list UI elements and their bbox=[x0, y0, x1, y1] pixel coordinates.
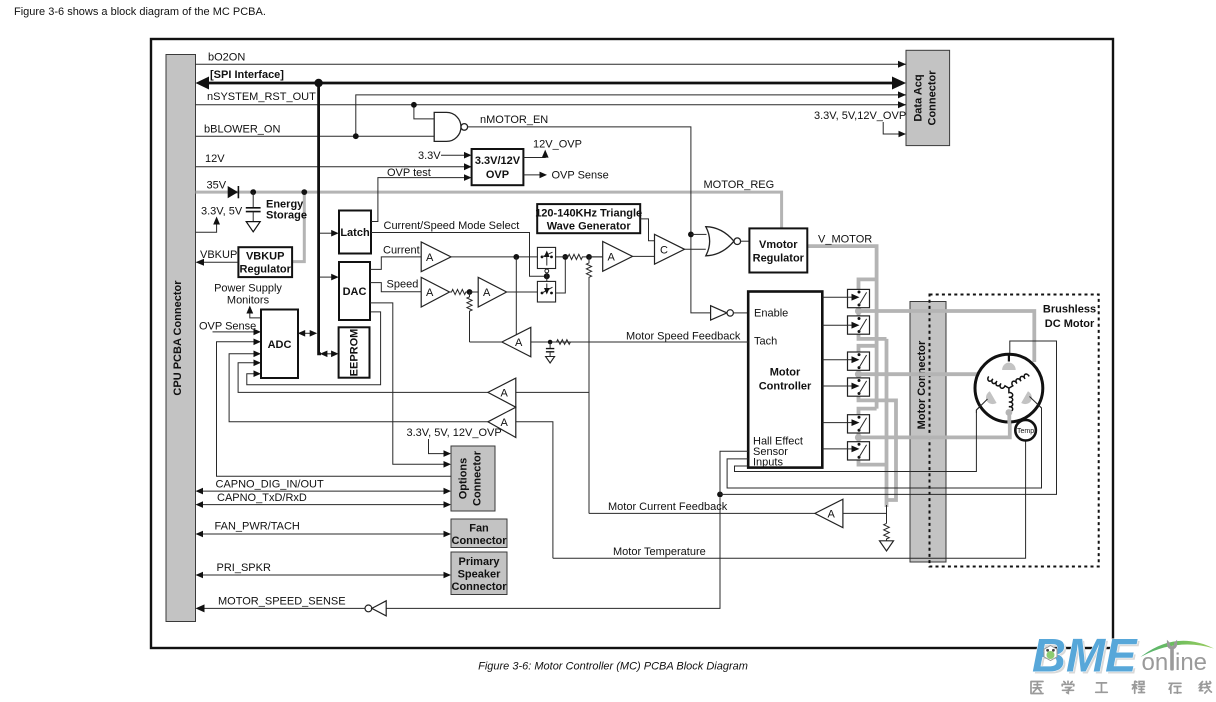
wire power supply monitors arrow bbox=[250, 309, 261, 318]
char cheng bbox=[1132, 681, 1144, 693]
svg-text:CAPNO_TxD/RxD: CAPNO_TxD/RxD bbox=[217, 492, 307, 504]
Brushless DC Motor label bbox=[1043, 304, 1096, 331]
Options Connector bbox=[451, 446, 495, 511]
wire motor phase B bbox=[859, 372, 978, 376]
svg-text:VBKUP: VBKUP bbox=[200, 249, 237, 261]
svg-text:Fan: Fan bbox=[469, 523, 489, 535]
svg-text:Current/Speed Mode Select: Current/Speed Mode Select bbox=[384, 220, 520, 232]
svg-text:nMOTOR_EN: nMOTOR_EN bbox=[480, 114, 548, 126]
wire hall 2 from MC to motor right sensor bbox=[727, 397, 1041, 489]
ground energy storage bbox=[246, 222, 260, 232]
wire A3 to switch S2 bbox=[470, 291, 538, 293]
wire motor controller drive 5 bbox=[822, 422, 855, 424]
svg-text:bBLOWER_ON: bBLOWER_ON bbox=[204, 124, 280, 136]
Vmotor Regulator U10 bbox=[749, 228, 807, 272]
wire A5 input from motor temperature bbox=[516, 422, 553, 559]
transistor switch Q4 bbox=[848, 378, 870, 396]
junction phase B tap bbox=[855, 371, 862, 378]
wire ADC input from amp A4 bbox=[229, 354, 488, 422]
wire bus to Latch bbox=[320, 232, 335, 234]
transistor switch Q6 bbox=[848, 442, 870, 460]
resistor R1 after A2 bbox=[450, 289, 470, 294]
svg-text:Speed: Speed bbox=[387, 279, 419, 291]
wire bus to DAC bbox=[320, 276, 335, 278]
temp sensor circle bbox=[1015, 420, 1036, 441]
junction 35V vbkup node bbox=[301, 189, 307, 195]
junction nMOTOR_EN to NOR bbox=[688, 232, 694, 238]
winding coil up-right bbox=[1007, 373, 1029, 388]
wire motor controller drive 2 bbox=[822, 324, 855, 326]
wire ADC input from DAC loopback bbox=[247, 312, 381, 385]
svg-text:DAC: DAC bbox=[343, 286, 367, 298]
junction grey at motor winding bottom bbox=[1005, 409, 1012, 416]
diode D1 on 35V rail bbox=[228, 186, 238, 198]
resistor R6 current sense bbox=[884, 523, 890, 540]
CPU PCBA Connector bar bbox=[166, 55, 196, 622]
wire CAPNO_TxD/RxD bbox=[199, 504, 447, 506]
winding coil up-left bbox=[987, 376, 1009, 391]
svg-text:A: A bbox=[426, 287, 434, 299]
wire OVP Sense out bbox=[523, 174, 543, 176]
node mode select control bbox=[544, 273, 550, 279]
junction phase A tap bbox=[855, 307, 862, 314]
SPI bus vertical bbox=[319, 83, 321, 354]
NAND gate U8 bbox=[434, 112, 467, 141]
winding coil down bbox=[1009, 388, 1013, 411]
wire current node down to speed feedback amp bbox=[515, 257, 517, 336]
inverter U13 speed sense (points left) bbox=[365, 601, 386, 616]
transistor switch Q2 bbox=[848, 316, 870, 334]
svg-text:Current: Current bbox=[383, 245, 420, 257]
svg-text:Connector: Connector bbox=[452, 581, 508, 593]
svg-text:Regulator: Regulator bbox=[753, 253, 805, 265]
svg-text:12V: 12V bbox=[205, 153, 225, 165]
ground at cap bbox=[546, 357, 555, 364]
wire Latch to OVP test bbox=[371, 178, 468, 222]
wire motor temperature bbox=[553, 441, 1026, 559]
ground current sense bbox=[880, 541, 894, 551]
motor M1 brushless bbox=[975, 354, 1043, 424]
wire motor phase C bbox=[859, 413, 1010, 438]
wire bO2ON bbox=[196, 63, 907, 65]
wire DAC speed output bbox=[370, 283, 421, 292]
wire grey through switch pair Q3/Q4 bbox=[859, 352, 897, 500]
svg-text:A: A bbox=[426, 252, 434, 264]
wire 12V_OVP out bbox=[523, 153, 545, 158]
wire ADC input from amp A5 (x216.5) to Options bbox=[217, 342, 452, 476]
wire NAND top input from nSYSTEM_RST_OUT bbox=[414, 105, 434, 119]
hall pad lower left bbox=[983, 391, 996, 406]
wire A8 input from sense node bbox=[843, 512, 887, 514]
wire 3.3V,5V,12V_OVP elbow into Data Acq bbox=[883, 122, 902, 134]
op-amp A5 (points left) bbox=[488, 407, 516, 437]
svg-text:Data Acq: Data Acq bbox=[913, 74, 925, 121]
svg-text:MOTOR_REG: MOTOR_REG bbox=[704, 179, 775, 191]
svg-text:Power Supply: Power Supply bbox=[214, 283, 282, 295]
EEPROM U6 bbox=[339, 327, 370, 377]
junction cap node bbox=[548, 340, 553, 345]
wire hall 3 from MC to motor left sensor bbox=[735, 399, 988, 472]
svg-text:Connector: Connector bbox=[472, 450, 484, 506]
wire A1 output to switch S1 bbox=[451, 256, 537, 258]
svg-text:3.3V, 5V, 12V_OVP: 3.3V, 5V, 12V_OVP bbox=[407, 427, 502, 439]
svg-text:Options: Options bbox=[458, 458, 470, 500]
Primary Speaker Connector bbox=[451, 552, 507, 595]
svg-text:Motor Temperature: Motor Temperature bbox=[613, 546, 706, 558]
transistor switch Q3 bbox=[848, 352, 870, 370]
wire VBKUP to connector bbox=[199, 261, 238, 263]
wire CAPNO_DIG_IN/OUT bbox=[199, 490, 447, 492]
op-amp A7 speed feedback (points left) bbox=[502, 327, 531, 357]
svg-text:A: A bbox=[483, 287, 491, 299]
capacitor C3 to ground bbox=[549, 342, 551, 348]
VBKUP Regulator U2 bbox=[238, 247, 292, 277]
Motor Controller U12 bbox=[748, 292, 822, 469]
120-140KHz Triangle Wave Generator bbox=[535, 204, 642, 233]
junction phase C at winding bbox=[1006, 409, 1013, 416]
char gong bbox=[1096, 683, 1108, 692]
svg-text:3.3V: 3.3V bbox=[418, 150, 441, 162]
logo wrench bbox=[1167, 640, 1177, 671]
junction on nSYSTEM_RST_OUT bbox=[411, 102, 417, 108]
svg-text:Brushless: Brushless bbox=[1043, 304, 1096, 316]
wire DAC out3 to Options bbox=[370, 303, 447, 464]
hall pad top bbox=[1002, 363, 1016, 370]
op-amp A8 current feedback (points left) bbox=[815, 499, 843, 527]
char xian bbox=[1200, 682, 1212, 694]
junction node after switches bbox=[562, 254, 568, 260]
svg-text:Latch: Latch bbox=[340, 227, 370, 239]
svg-text:Speaker: Speaker bbox=[458, 569, 502, 581]
wire grey through switch pair Q5/Q6 bbox=[859, 415, 887, 465]
wire 12V bbox=[196, 166, 472, 168]
wire V_MOTOR feed to switch Q5 bbox=[859, 409, 877, 415]
svg-text:CAPNO_DIG_IN/OUT: CAPNO_DIG_IN/OUT bbox=[216, 479, 324, 491]
svg-text:Motor Connector: Motor Connector bbox=[916, 340, 928, 429]
wire 3.3V into OVP bbox=[441, 154, 468, 156]
wire ADC to bus bidirectional bbox=[301, 332, 315, 334]
DAC U5 bbox=[339, 262, 370, 320]
wire Current/Speed Mode Select bbox=[371, 233, 544, 277]
svg-text:VBKUP: VBKUP bbox=[246, 251, 285, 263]
switch S2 speed mode bbox=[537, 281, 555, 302]
svg-text:OVP Sense: OVP Sense bbox=[199, 321, 256, 333]
wire A4 input from current feedback vertical bbox=[516, 391, 589, 393]
logo chinese characters bbox=[1031, 681, 1211, 693]
op-amp A4 (points left) bbox=[488, 378, 516, 407]
svg-text:Tach: Tach bbox=[754, 336, 777, 348]
op-amp A6 before comparator bbox=[603, 242, 633, 272]
svg-text:3.3V, 5V,12V_OVP: 3.3V, 5V,12V_OVP bbox=[814, 110, 906, 122]
svg-text:OVP test: OVP test bbox=[387, 167, 431, 179]
svg-text:on: on bbox=[1142, 649, 1169, 676]
wire hall slant to right pad (redraw over motor) bbox=[1030, 397, 1042, 413]
BME online logo bbox=[1031, 629, 1214, 694]
wire SPI Interface thick bus bbox=[199, 82, 903, 85]
svg-text:nSYSTEM_RST_OUT: nSYSTEM_RST_OUT bbox=[207, 91, 316, 103]
logo hexagon mascot bbox=[1044, 646, 1057, 661]
svg-text:Storage: Storage bbox=[266, 210, 307, 222]
wire PRI_SPKR bbox=[199, 574, 447, 576]
wire V_MOTOR feed to switch Q1 bbox=[859, 279, 877, 289]
svg-text:A: A bbox=[608, 252, 616, 264]
wire grey through switch pair Q1/Q2 bbox=[859, 289, 887, 339]
Latch U4 bbox=[339, 211, 371, 254]
junction speed node bbox=[467, 289, 473, 295]
svg-text:3.3V, 5V: 3.3V, 5V bbox=[201, 206, 243, 218]
wire V_MOTOR feed to switch Q3 bbox=[859, 346, 877, 352]
svg-text:EEPROM: EEPROM bbox=[349, 329, 361, 377]
wire bBLOWER_ON bbox=[196, 135, 435, 137]
svg-text:A: A bbox=[501, 388, 509, 400]
svg-text:Connector: Connector bbox=[452, 535, 508, 547]
svg-text:Wave Generator: Wave Generator bbox=[547, 221, 632, 233]
wire ADC input feedback line B bbox=[238, 363, 488, 393]
wire FAN_PWR/TACH bbox=[199, 533, 447, 535]
wire DAC current output bbox=[370, 257, 421, 270]
wire motor controller drive 6 bbox=[822, 448, 855, 450]
wire MOTOR_SPEED_SENSE bbox=[199, 498, 720, 609]
junction comparator input node bbox=[586, 254, 592, 260]
svg-text:OVP: OVP bbox=[486, 169, 509, 181]
svg-text:Figure 3-6: Motor Controller (: Figure 3-6: Motor Controller (MC) PCBA B… bbox=[478, 661, 748, 673]
junction SPI bus tap bbox=[314, 79, 322, 87]
svg-text:OVP Sense: OVP Sense bbox=[552, 170, 609, 182]
svg-text:V_MOTOR: V_MOTOR bbox=[818, 234, 872, 246]
svg-text:FAN_PWR/TACH: FAN_PWR/TACH bbox=[215, 521, 300, 533]
svg-text:Temp: Temp bbox=[1017, 428, 1034, 435]
wire motor speed feedback line bbox=[470, 341, 749, 343]
svg-text:C: C bbox=[660, 245, 668, 257]
svg-text:bO2ON: bO2ON bbox=[208, 52, 245, 64]
wire sense node to resistor bbox=[886, 505, 888, 523]
wire OVP sense into ADC bbox=[213, 331, 258, 333]
wire V_MOTOR grey bbox=[807, 246, 876, 409]
wire drive arrowheads over switches bbox=[848, 294, 860, 453]
junction bBLOWER_ON branch bbox=[353, 133, 359, 139]
wire 3.3V,5V,12V_OVP elbow into Options bbox=[429, 439, 448, 454]
resistor R4 vertical current feedback bbox=[586, 257, 591, 514]
svg-text:MOTOR_SPEED_SENSE: MOTOR_SPEED_SENSE bbox=[218, 596, 346, 608]
svg-text:A: A bbox=[828, 509, 836, 521]
comparator C1 bbox=[655, 234, 685, 264]
wire motor controller drive 1 bbox=[822, 296, 855, 298]
svg-text:12V_OVP: 12V_OVP bbox=[533, 139, 582, 151]
Data Acq Connector bbox=[906, 50, 950, 145]
junction 35V cap node bbox=[250, 189, 256, 195]
inverter U11 enable bbox=[711, 306, 734, 320]
junction phase C tap bbox=[855, 434, 862, 441]
svg-text:PRI_SPKR: PRI_SPKR bbox=[217, 562, 271, 574]
char zai bbox=[1169, 683, 1181, 693]
Brushless DC Motor dashed enclosure bbox=[930, 295, 1099, 567]
wire bBLOWER_ON branch to Data Acq bbox=[356, 95, 906, 136]
wire 3.3V,5V arrow up from connector bbox=[196, 220, 217, 232]
wire motor current feedback bbox=[589, 512, 815, 514]
svg-text:Motor: Motor bbox=[770, 367, 801, 379]
svg-text:CPU PCBA Connector: CPU PCBA Connector bbox=[172, 280, 184, 396]
outer frame bbox=[151, 39, 1113, 648]
wire motor controller drive 3 bbox=[822, 359, 855, 361]
wire 35V / MOTOR_REG grey rail bbox=[196, 192, 782, 228]
wire hall slant to left pad (redraw over motor) bbox=[976, 399, 987, 413]
wire C1 output to NOR bbox=[685, 248, 706, 250]
svg-text:ine: ine bbox=[1175, 649, 1207, 676]
OVP box U7 bbox=[472, 149, 524, 185]
svg-text:Vmotor: Vmotor bbox=[759, 239, 798, 251]
svg-text:[SPI Interface]: [SPI Interface] bbox=[210, 69, 284, 81]
op-amp A1 current bbox=[421, 242, 451, 272]
NOR gate U9 bbox=[706, 227, 741, 256]
hall pad lower right bbox=[1021, 391, 1034, 406]
wire motor controller drive 4 bbox=[822, 385, 855, 387]
wire nMOTOR_EN bbox=[468, 127, 711, 313]
svg-text:DC Motor: DC Motor bbox=[1045, 318, 1095, 330]
wire hall 1 from MC to motor top sensor bbox=[720, 341, 1057, 494]
char yi bbox=[1031, 682, 1043, 694]
svg-text:Regulator: Regulator bbox=[240, 264, 292, 276]
op-amp A2 speed bbox=[421, 277, 449, 307]
wire nSYSTEM_RST_OUT bbox=[196, 104, 907, 106]
resistor R3 after switches bbox=[556, 254, 603, 259]
Fan Connector bbox=[451, 519, 507, 548]
wire motor phase A bbox=[859, 311, 1035, 362]
ADC U3 bbox=[261, 310, 298, 379]
Motor Connector bar bbox=[910, 302, 946, 563]
svg-text:Controller: Controller bbox=[759, 381, 812, 393]
capacitor energy storage bbox=[246, 192, 261, 222]
svg-text:Figure 3-6 shows a block diagr: Figure 3-6 shows a block diagram of the … bbox=[14, 6, 266, 18]
resistor R5 on tach line bbox=[557, 340, 571, 345]
wire low-side common to sense resistor bbox=[885, 339, 889, 507]
svg-text:ADC: ADC bbox=[268, 339, 292, 351]
svg-text:Primary: Primary bbox=[459, 556, 501, 568]
switch S1 current mode bbox=[537, 247, 555, 268]
junction hall wire 1 / speed sense bbox=[717, 492, 723, 498]
wire switch S2 output up to node bbox=[556, 257, 566, 293]
svg-text:Motor Speed Feedback: Motor Speed Feedback bbox=[626, 331, 741, 343]
wire VBKUP grey feed from 35V rail bbox=[292, 192, 304, 262]
wire TWG to comparator bbox=[640, 219, 654, 241]
svg-text:35V: 35V bbox=[207, 180, 227, 192]
transistor switch Q5 bbox=[848, 415, 870, 433]
svg-text:3.3V/12V: 3.3V/12V bbox=[475, 155, 521, 167]
logo green arc bbox=[1141, 641, 1215, 657]
svg-text:A: A bbox=[515, 337, 523, 349]
svg-text:Inputs: Inputs bbox=[753, 457, 783, 469]
svg-text:Connector: Connector bbox=[927, 70, 939, 126]
svg-text:120-140KHz Triangle: 120-140KHz Triangle bbox=[535, 208, 642, 220]
wire bus to EEPROM bidirectional bbox=[322, 353, 335, 355]
op-amp A3 speed second bbox=[478, 277, 506, 307]
char xue bbox=[1062, 681, 1074, 693]
junction current node bbox=[513, 254, 519, 260]
svg-text:Motor Current Feedback: Motor Current Feedback bbox=[608, 501, 728, 513]
transistor switch Q1 bbox=[848, 289, 870, 307]
svg-text:Monitors: Monitors bbox=[227, 295, 270, 307]
resistor R2 vertical at speed node bbox=[467, 292, 472, 342]
svg-text:Enable: Enable bbox=[754, 308, 788, 320]
